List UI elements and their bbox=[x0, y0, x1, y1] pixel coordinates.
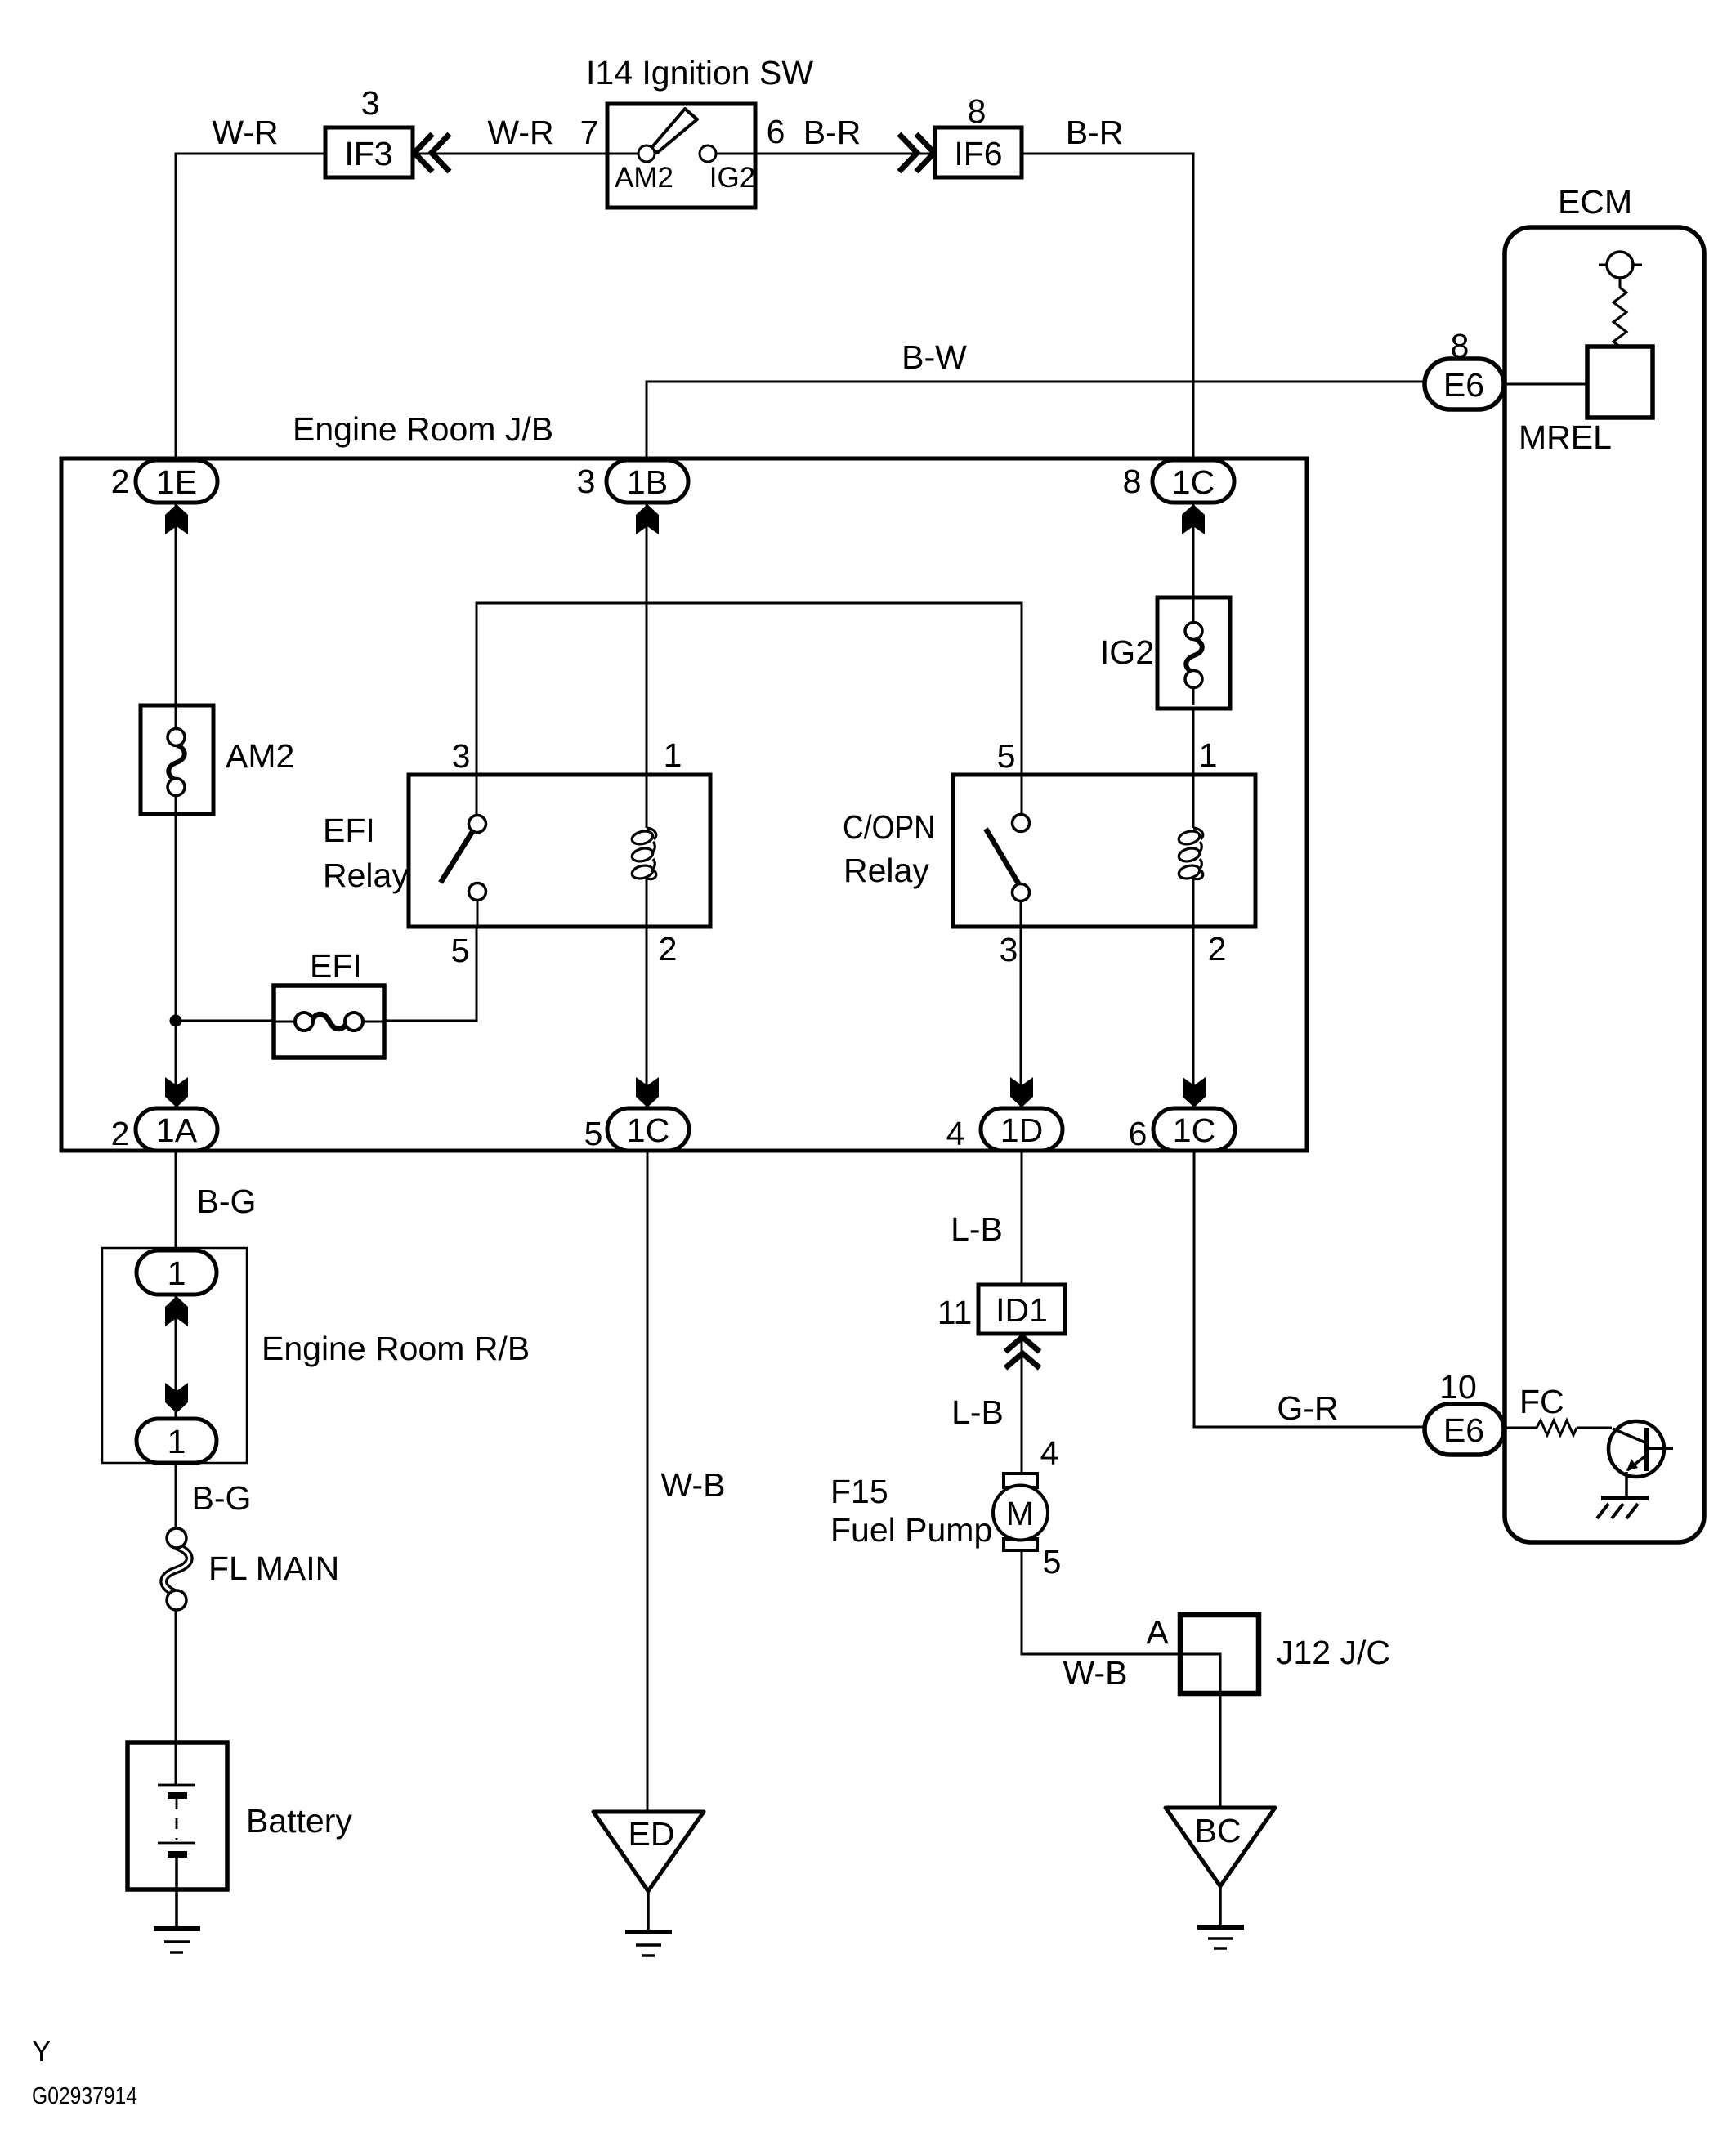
svg-text:AM2: AM2 bbox=[615, 162, 673, 194]
svg-text:6: 6 bbox=[1129, 1115, 1148, 1152]
connector E6 pin 8 bbox=[1425, 327, 1504, 409]
arrow up into 1E bbox=[165, 504, 188, 534]
svg-text:W-R: W-R bbox=[487, 114, 553, 151]
svg-text:5: 5 bbox=[997, 737, 1016, 775]
wire from AM2 fuse down to junction bbox=[175, 814, 177, 1021]
svg-text:3: 3 bbox=[577, 463, 596, 500]
svg-text:ID1: ID1 bbox=[996, 1291, 1048, 1329]
female chevrons at IF3 bbox=[414, 134, 450, 172]
svg-text:B-R: B-R bbox=[803, 114, 861, 151]
svg-text:W-R: W-R bbox=[212, 114, 278, 151]
svg-text:IG2: IG2 bbox=[1100, 633, 1154, 671]
transistor FC inside ECM bbox=[1608, 1421, 1673, 1497]
connector oval 1C pin 5 bbox=[584, 1108, 689, 1152]
svg-text:Y: Y bbox=[32, 2036, 51, 2068]
connector oval 1D pin 4 bbox=[946, 1108, 1063, 1152]
wire linking EFI relay pin 3 and C/OPN relay pin 5 bbox=[477, 603, 1022, 775]
EFI relay box bbox=[323, 736, 710, 969]
connector oval 1C pin 6 bbox=[1129, 1108, 1235, 1152]
svg-text:3: 3 bbox=[452, 737, 471, 775]
svg-text:3: 3 bbox=[361, 84, 380, 122]
svg-text:MREL: MREL bbox=[1519, 418, 1612, 456]
svg-text:1: 1 bbox=[168, 1423, 186, 1460]
chassis ground hatch for transistor emitter bbox=[1597, 1498, 1649, 1518]
svg-text:Fuel Pump: Fuel Pump bbox=[830, 1511, 992, 1549]
svg-text:I14 Ignition SW: I14 Ignition SW bbox=[586, 54, 813, 92]
wire W-R between ignition switch and IF3 bbox=[413, 114, 607, 154]
arrow up below R/B top oval bbox=[165, 1296, 188, 1326]
svg-text:W-B: W-B bbox=[1063, 1654, 1128, 1692]
fuse EFI bbox=[274, 947, 384, 1058]
svg-text:Relay: Relay bbox=[323, 856, 409, 894]
wire L-B from ID1 to fuel pump pin 4 bbox=[951, 1334, 1058, 1474]
fuse AM2 bbox=[141, 705, 294, 814]
svg-text:BC: BC bbox=[1195, 1812, 1242, 1849]
junction connector J12 J/C bbox=[1180, 1615, 1390, 1693]
connector oval 1E pin 2 bbox=[111, 460, 217, 503]
MREL circuit inside ECM bbox=[1504, 252, 1653, 456]
svg-text:Battery: Battery bbox=[246, 1802, 352, 1840]
EFI relay switch bbox=[441, 775, 486, 927]
svg-text:B-W: B-W bbox=[902, 338, 967, 376]
svg-text:4: 4 bbox=[946, 1115, 965, 1152]
svg-text:M: M bbox=[1006, 1495, 1034, 1532]
arrow up into 1B bbox=[636, 504, 659, 534]
FC circuit inside ECM: resistor bbox=[1504, 1383, 1612, 1435]
wire from C/OPN relay pin 3 down to 1D bbox=[1020, 927, 1022, 1108]
svg-text:2: 2 bbox=[111, 463, 130, 500]
svg-text:1D: 1D bbox=[1000, 1111, 1043, 1149]
svg-text:11: 11 bbox=[937, 1294, 973, 1331]
connector E6 pin 10 bbox=[1425, 1368, 1504, 1455]
svg-text:ED: ED bbox=[629, 1815, 675, 1853]
connector oval 1 (R/B top) bbox=[136, 1250, 217, 1295]
wire from junction down to 1A bbox=[175, 1021, 177, 1108]
svg-text:7: 7 bbox=[580, 114, 599, 151]
C/OPN relay coil pin 1-2 bbox=[1178, 705, 1203, 927]
connector ID1 pin 11 bbox=[937, 1285, 1065, 1334]
svg-text:1C: 1C bbox=[1172, 463, 1215, 501]
svg-text:3: 3 bbox=[1000, 931, 1018, 968]
svg-text:B-G: B-G bbox=[192, 1479, 252, 1517]
wire from EFI relay pin 2 down to 1C pin5 bbox=[646, 927, 648, 1108]
svg-text:1C: 1C bbox=[627, 1111, 669, 1149]
wire W-R from IF3 left going left and down to 1E bbox=[176, 114, 325, 460]
ECM box bbox=[1505, 183, 1704, 1542]
wire B-R from IF6 right, down to 1C bbox=[1022, 114, 1193, 460]
wire B-G from R/B to FL MAIN bbox=[176, 1463, 251, 1530]
svg-text:FC: FC bbox=[1519, 1383, 1564, 1420]
svg-text:IF3: IF3 bbox=[344, 135, 392, 172]
wire from FL MAIN to battery bbox=[175, 1610, 177, 1742]
Engine Room R/B block bbox=[102, 1248, 530, 1463]
svg-text:J12 J/C: J12 J/C bbox=[1277, 1634, 1390, 1671]
svg-text:1A: 1A bbox=[156, 1111, 198, 1149]
svg-text:Engine Room R/B: Engine Room R/B bbox=[262, 1330, 530, 1367]
svg-text:L-B: L-B bbox=[951, 1210, 1003, 1248]
wire from 1E down to AM2 fuse bbox=[175, 503, 177, 705]
svg-text:FL MAIN: FL MAIN bbox=[208, 1550, 339, 1587]
EFI relay coil pin 1-2 bbox=[631, 775, 656, 927]
svg-text:G-R: G-R bbox=[1277, 1389, 1338, 1427]
wire inside R/B bbox=[175, 1295, 177, 1419]
svg-text:8: 8 bbox=[968, 92, 987, 130]
svg-text:B-R: B-R bbox=[1066, 114, 1124, 151]
svg-text:IG2: IG2 bbox=[709, 162, 755, 194]
wire G-R from 1C pin6 down and right to E6 pin10 bbox=[1194, 1151, 1425, 1427]
svg-text:2: 2 bbox=[1208, 930, 1227, 968]
svg-text:5: 5 bbox=[451, 932, 470, 969]
svg-text:W-B: W-B bbox=[661, 1466, 726, 1504]
wire W-B from fuel pump pin 5 to J12 bbox=[1022, 1550, 1180, 1692]
motor F15 Fuel Pump bbox=[830, 1473, 1061, 1581]
svg-text:1: 1 bbox=[168, 1254, 186, 1292]
svg-text:1: 1 bbox=[1199, 736, 1218, 774]
Engine Room J/B box bbox=[61, 410, 1307, 1151]
svg-text:5: 5 bbox=[1043, 1543, 1062, 1581]
wire B-R between ignition switch and IF6 bbox=[755, 114, 935, 154]
wire L-B from 1D to ID1 bbox=[951, 1151, 1022, 1285]
svg-text:Relay: Relay bbox=[843, 852, 929, 889]
connector oval 1 (R/B bottom) bbox=[136, 1419, 217, 1463]
svg-text:1C: 1C bbox=[1173, 1111, 1215, 1149]
ground point ED bbox=[593, 1812, 704, 1956]
svg-text:E6: E6 bbox=[1443, 1411, 1484, 1449]
C/OPN relay switch bbox=[986, 775, 1030, 927]
svg-text:1E: 1E bbox=[156, 463, 197, 501]
svg-text:E6: E6 bbox=[1443, 366, 1484, 404]
svg-text:2: 2 bbox=[659, 930, 678, 968]
male chevrons below ID1 bbox=[1005, 1337, 1040, 1368]
svg-text:C/OPN: C/OPN bbox=[843, 808, 935, 846]
svg-text:EFI: EFI bbox=[323, 812, 375, 849]
arrow up into 1C bbox=[1182, 504, 1205, 534]
connector oval 1C pin 8 bbox=[1123, 460, 1234, 503]
wire from junction to EFI fuse and up to EFI relay pin 5 bbox=[176, 1020, 275, 1022]
svg-text:L-B: L-B bbox=[951, 1393, 1004, 1431]
male chevrons at IF6 bbox=[899, 134, 934, 172]
svg-text:A: A bbox=[1146, 1613, 1169, 1651]
arrow down into 1A bbox=[165, 1077, 188, 1107]
svg-text:1B: 1B bbox=[627, 463, 668, 501]
arrow down into 1D bbox=[1010, 1077, 1033, 1107]
svg-text:EFI: EFI bbox=[310, 947, 362, 985]
svg-text:F15: F15 bbox=[830, 1473, 888, 1510]
fuse IG2 bbox=[1100, 597, 1230, 709]
svg-text:IF6: IF6 bbox=[954, 135, 1002, 172]
svg-text:8: 8 bbox=[1451, 327, 1470, 364]
wire W-B from 1C pin5 down to ED bbox=[647, 1151, 725, 1812]
svg-text:4: 4 bbox=[1040, 1434, 1059, 1472]
svg-text:1: 1 bbox=[664, 736, 682, 774]
svg-text:8: 8 bbox=[1123, 463, 1142, 500]
switch I14 Ignition SW bbox=[580, 54, 814, 208]
svg-text:G02937914: G02937914 bbox=[32, 2083, 137, 2109]
svg-text:ECM: ECM bbox=[1558, 183, 1632, 221]
Battery bbox=[128, 1742, 352, 1889]
wire B-W from 1B up and right to E6 bbox=[647, 338, 1425, 460]
connector IF6 bbox=[935, 92, 1022, 177]
arrow down into 1C pin5 bbox=[636, 1077, 659, 1107]
wire from J12 down to BC bbox=[1219, 1693, 1222, 1808]
svg-text:B-G: B-G bbox=[197, 1183, 257, 1220]
wire B-G from 1A to Engine Room R/B bbox=[176, 1151, 256, 1250]
svg-text:2: 2 bbox=[111, 1115, 130, 1152]
svg-text:6: 6 bbox=[767, 113, 785, 150]
junction node on battery feed bbox=[170, 1015, 182, 1027]
C/OPN relay box bbox=[843, 736, 1255, 968]
fusible link FL MAIN bbox=[163, 1528, 339, 1610]
connector oval 1A pin 2 bbox=[111, 1108, 217, 1152]
wire from 1C down to IG2 fuse bbox=[1192, 501, 1195, 598]
svg-text:5: 5 bbox=[584, 1115, 603, 1152]
wire from C/OPN relay pin 2 down to 1C pin6 bbox=[1192, 927, 1195, 1108]
ground below battery bbox=[154, 1889, 200, 1952]
svg-text:Engine Room J/B: Engine Room J/B bbox=[293, 410, 553, 448]
ground point BC bbox=[1166, 1808, 1275, 1948]
svg-text:10: 10 bbox=[1439, 1368, 1477, 1406]
svg-text:AM2: AM2 bbox=[226, 737, 294, 775]
arrow down into 1C pin6 bbox=[1183, 1077, 1206, 1107]
wire from B-W down through 1B to EFI relay coil bbox=[646, 501, 648, 828]
connector IF3 bbox=[325, 84, 413, 177]
arrow down above R/B bottom oval bbox=[165, 1383, 188, 1413]
connector oval 1B pin 3 bbox=[577, 460, 688, 503]
